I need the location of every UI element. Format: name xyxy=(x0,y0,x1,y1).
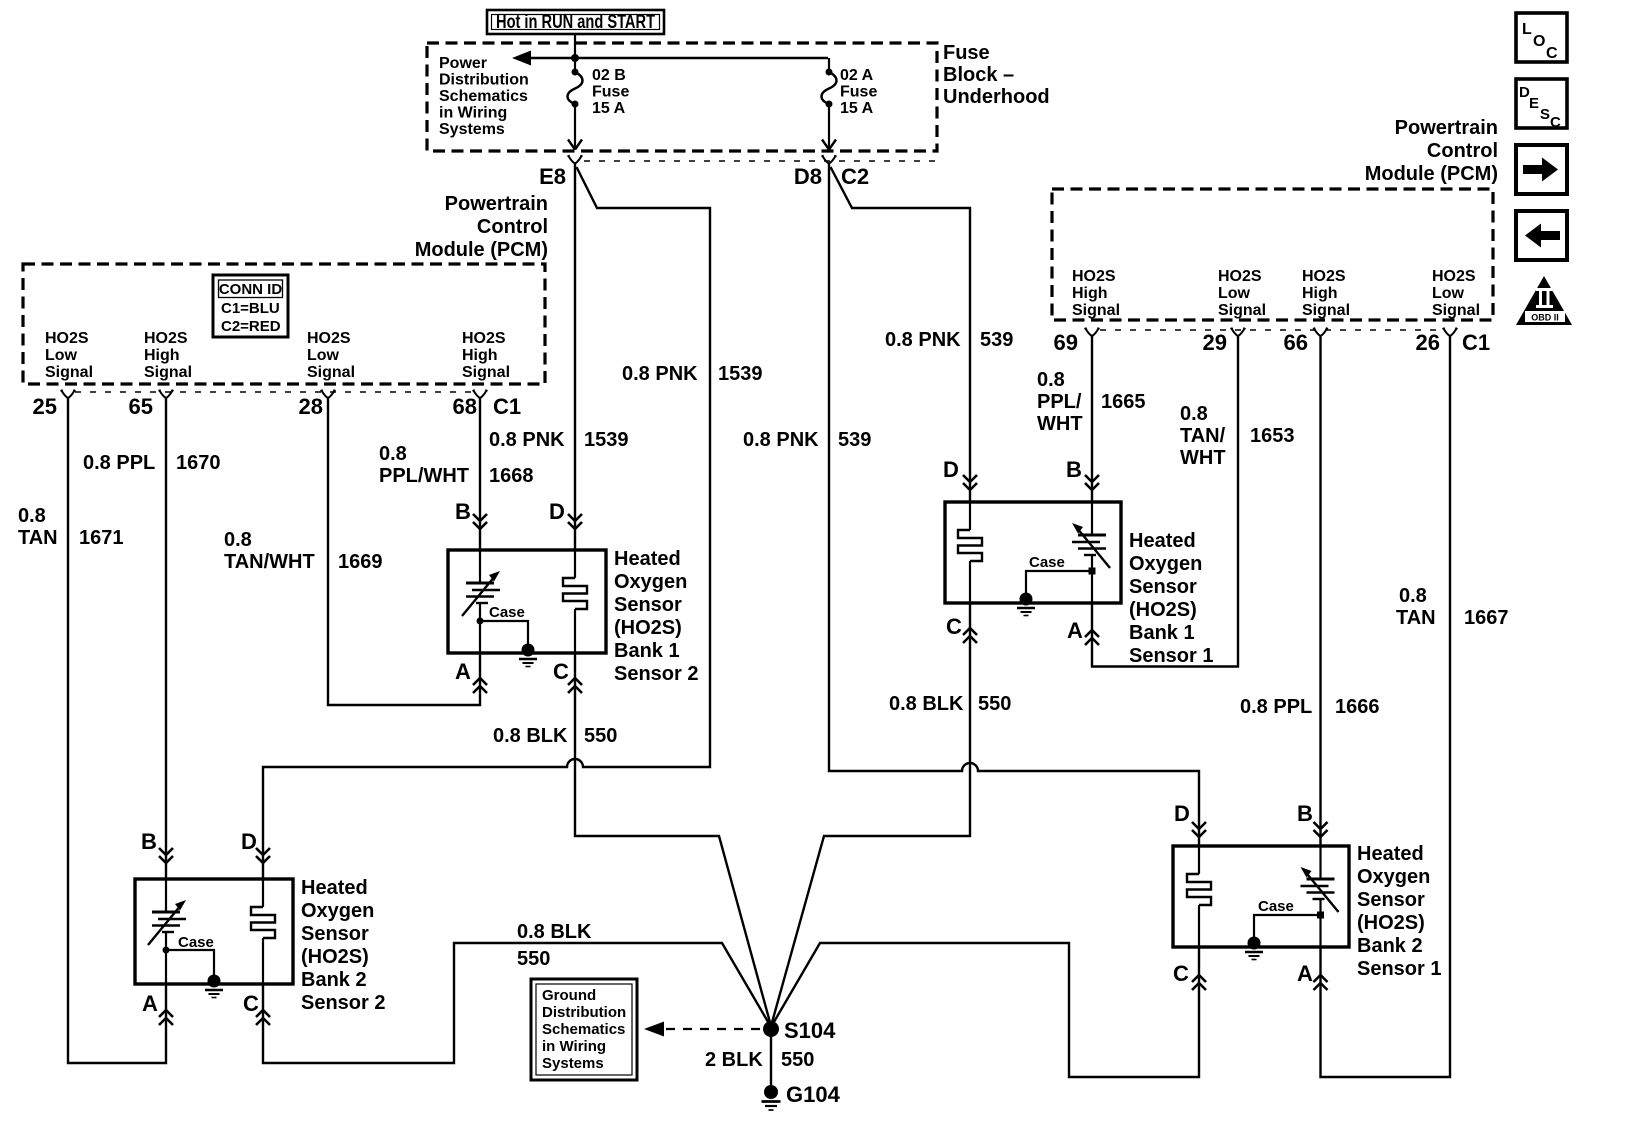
svg-text:TAN: TAN xyxy=(1396,607,1436,629)
svg-text:539: 539 xyxy=(838,429,871,451)
svg-text:Low: Low xyxy=(1218,285,1251,302)
heated oxygen sensor B1S2 box xyxy=(448,550,606,653)
svg-text:15 A: 15 A xyxy=(592,100,626,117)
terminal B chevron B1S2 xyxy=(473,514,487,529)
svg-text:A: A xyxy=(1067,618,1083,643)
LOC icon button xyxy=(1516,13,1567,62)
svg-text:Systems: Systems xyxy=(439,121,505,138)
svg-text:Bank 2: Bank 2 xyxy=(1357,935,1423,957)
svg-text:Heated: Heated xyxy=(1129,530,1196,552)
svg-text:G104: G104 xyxy=(786,1082,841,1107)
B2S2 sensing element (variable source) xyxy=(148,879,186,984)
svg-text:L: L xyxy=(1522,21,1532,38)
svg-text:WHT: WHT xyxy=(1180,447,1226,469)
svg-text:D: D xyxy=(241,829,257,854)
svg-text:C: C xyxy=(946,614,962,639)
svg-text:Distribution: Distribution xyxy=(542,1004,626,1021)
svg-text:Case: Case xyxy=(178,934,214,951)
B1S2 sensing element (variable source) xyxy=(462,550,500,653)
wire 0.8 PNK 1539 connector E8 to B1S2 terminal D xyxy=(574,164,576,551)
left PCM HO2S high signal label pin 68 xyxy=(462,330,510,381)
svg-text:Case: Case xyxy=(1029,554,1065,571)
svg-text:Signal: Signal xyxy=(1072,302,1120,319)
svg-text:D: D xyxy=(943,457,959,482)
B1S2 terminal letters xyxy=(455,499,569,684)
svg-text:0.8 BLK: 0.8 BLK xyxy=(517,921,592,943)
svg-text:65: 65 xyxy=(129,394,153,419)
svg-text:A: A xyxy=(142,991,158,1016)
svg-text:C1: C1 xyxy=(1462,330,1490,355)
splice S104 xyxy=(763,1021,779,1037)
bus wire with left arrow to power distribution xyxy=(512,51,828,66)
B1S2 case connection and ground xyxy=(477,604,538,667)
svg-text:Fuse: Fuse xyxy=(840,84,877,101)
terminal C chevron B1S2 xyxy=(568,678,582,693)
fuse block label xyxy=(943,42,1050,108)
svg-text:1665: 1665 xyxy=(1101,391,1146,413)
back arrow icon button xyxy=(1516,211,1567,260)
svg-text:C1: C1 xyxy=(493,394,521,419)
svg-text:(HO2S): (HO2S) xyxy=(1357,912,1425,934)
right PCM connector row dashed line xyxy=(1100,329,1442,331)
svg-text:TAN: TAN xyxy=(18,527,58,549)
terminal B chevron B2S1 xyxy=(1314,822,1328,837)
svg-text:(HO2S): (HO2S) xyxy=(1129,599,1197,621)
svg-text:Sensor: Sensor xyxy=(1357,889,1425,911)
svg-text:0.8 BLK: 0.8 BLK xyxy=(493,725,568,747)
svg-text:D: D xyxy=(1174,801,1190,826)
wire label 2 BLK 550 xyxy=(705,1049,814,1071)
B1S2 name label xyxy=(614,548,698,685)
pin 65 connector symbol xyxy=(159,390,174,398)
terminal A chevron B1S1 xyxy=(1085,630,1099,645)
svg-text:HO2S: HO2S xyxy=(462,330,506,347)
wire 0.8 PNK 539 connector D8 to B2S1 terminal D with hop xyxy=(829,164,1199,847)
wire label 0.8 PPL/WHT 1665 xyxy=(1037,369,1146,435)
left PCM label xyxy=(415,193,548,261)
svg-text:(HO2S): (HO2S) xyxy=(301,946,369,968)
svg-text:CONN ID: CONN ID xyxy=(219,281,283,298)
svg-text:1669: 1669 xyxy=(338,551,383,573)
svg-text:26: 26 xyxy=(1416,330,1440,355)
svg-text:C2=RED: C2=RED xyxy=(221,318,281,335)
svg-text:2 BLK: 2 BLK xyxy=(705,1049,763,1071)
right PCM label xyxy=(1365,117,1498,185)
wire 2 BLK 550 splice S104 to ground G104 xyxy=(770,1029,772,1090)
svg-text:68: 68 xyxy=(453,394,477,419)
svg-text:0.8 PPL: 0.8 PPL xyxy=(83,452,155,474)
wire label 0.8 TAN 1667 xyxy=(1396,585,1509,629)
svg-text:0.8: 0.8 xyxy=(1399,585,1427,607)
terminal C chevron B1S1 xyxy=(963,628,977,643)
connector row dashed line under fuse block xyxy=(584,160,936,162)
svg-text:E8: E8 xyxy=(539,164,566,189)
svg-text:TAN/WHT: TAN/WHT xyxy=(224,551,315,573)
fuse 02 A value label xyxy=(840,67,877,117)
fuse 02 B 15 A xyxy=(568,58,583,150)
wire label 0.8 PNK 539 on branch drop xyxy=(885,329,1013,351)
B2S2 case connection and ground xyxy=(163,934,224,998)
right PCM HO2S high signal label pin 66 xyxy=(1302,268,1350,319)
svg-text:Powertrain: Powertrain xyxy=(1395,117,1498,139)
svg-text:Oxygen: Oxygen xyxy=(1129,553,1202,575)
svg-text:1671: 1671 xyxy=(79,527,124,549)
wire 0.8 PNK 539 D8 branch to B1S1 terminal D xyxy=(831,167,971,502)
svg-text:Signal: Signal xyxy=(307,364,355,381)
wire 0.8 BLK 550 B1S2 terminal C to splice S104 xyxy=(575,653,771,1026)
svg-text:B: B xyxy=(1297,801,1313,826)
svg-text:1667: 1667 xyxy=(1464,607,1509,629)
svg-text:02 A: 02 A xyxy=(840,67,874,84)
svg-text:B: B xyxy=(455,499,471,524)
right PCM HO2S low signal label pin 29 xyxy=(1218,268,1266,319)
svg-text:Sensor: Sensor xyxy=(614,594,682,616)
svg-text:Distribution: Distribution xyxy=(439,72,529,89)
wire label 0.8 TAN/WHT 1653 xyxy=(1180,403,1295,469)
wire label 0.8 PPL 1670 xyxy=(83,452,221,474)
heated oxygen sensor B2S1 box xyxy=(1173,846,1349,947)
terminal B chevron B1S1 xyxy=(1085,475,1099,490)
B1S1 case connection and ground xyxy=(1017,554,1096,616)
svg-text:Power: Power xyxy=(439,55,487,72)
SECTION-PCMS xyxy=(68,164,1450,1091)
B2S1 name label xyxy=(1357,843,1441,980)
svg-text:Bank 1: Bank 1 xyxy=(1129,622,1195,644)
svg-text:A: A xyxy=(1297,961,1313,986)
left PCM U1 dashed box xyxy=(23,264,545,384)
svg-text:550: 550 xyxy=(978,693,1011,715)
svg-text:1668: 1668 xyxy=(489,465,534,487)
ground G104 xyxy=(762,1085,781,1110)
svg-text:Low: Low xyxy=(1432,285,1465,302)
svg-text:Signal: Signal xyxy=(1302,302,1350,319)
svg-text:1666: 1666 xyxy=(1335,696,1380,718)
wire 0.8 BLK 550 B2S2 terminal C to splice S104 xyxy=(263,943,771,1063)
svg-text:1539: 1539 xyxy=(584,429,629,451)
svg-text:Underhood: Underhood xyxy=(943,86,1050,108)
svg-text:15 A: 15 A xyxy=(840,100,874,117)
svg-text:Signal: Signal xyxy=(45,364,93,381)
svg-text:Sensor 2: Sensor 2 xyxy=(301,992,385,1014)
svg-text:Fuse: Fuse xyxy=(943,42,990,64)
svg-text:25: 25 xyxy=(33,394,57,419)
svg-text:C: C xyxy=(243,991,259,1016)
svg-text:C1=BLU: C1=BLU xyxy=(221,300,280,317)
right PCM U2 dashed box xyxy=(1052,189,1493,320)
svg-text:PPL/WHT: PPL/WHT xyxy=(379,465,469,487)
B2S2 heater element xyxy=(251,879,275,984)
svg-text:Block –: Block – xyxy=(943,64,1014,86)
svg-text:Schematics: Schematics xyxy=(542,1021,625,1038)
svg-text:Sensor 2: Sensor 2 xyxy=(614,663,698,685)
svg-text:HO2S: HO2S xyxy=(144,330,188,347)
fuse block underhood dashed box xyxy=(427,43,937,151)
heated oxygen sensor B2S2 box xyxy=(135,879,293,984)
svg-text:02 B: 02 B xyxy=(592,67,626,84)
svg-text:High: High xyxy=(144,347,180,364)
wire label 0.8 TAN 1671 xyxy=(18,505,124,549)
pin 68 connector symbol xyxy=(473,390,488,398)
CONN ID legend box xyxy=(213,275,288,337)
wire label 0.8 PPL 1666 xyxy=(1240,696,1380,718)
wire 0.8 PPL/WHT 1668 pin 68 to B1S2 terminal B xyxy=(479,398,481,550)
B1S2 heater element xyxy=(563,550,587,653)
wire label 0.8 BLK 550 on B1S1 ground drop xyxy=(889,693,1011,715)
svg-text:Schematics: Schematics xyxy=(439,88,528,105)
OBD II icon xyxy=(1516,276,1572,325)
B2S1 terminal letters xyxy=(1173,801,1313,986)
svg-text:Powertrain: Powertrain xyxy=(445,193,548,215)
B2S1 heater element xyxy=(1187,846,1211,947)
wire 0.8 BLK 550 B1S1 terminal C to splice S104 xyxy=(771,603,970,1026)
wire label 0.8 PNK 1539 on branch drop xyxy=(622,363,763,385)
pin 69 connector symbol xyxy=(1085,328,1100,336)
svg-text:539: 539 xyxy=(980,329,1013,351)
svg-text:29: 29 xyxy=(1203,330,1227,355)
hot in RUN and START banner box xyxy=(487,10,664,34)
svg-text:Module (PCM): Module (PCM) xyxy=(1365,163,1498,185)
terminal A chevron B1S2 xyxy=(473,678,487,693)
terminal D chevron B1S1 xyxy=(963,475,977,490)
svg-text:0.8 PNK: 0.8 PNK xyxy=(489,429,565,451)
svg-text:Control: Control xyxy=(1427,140,1498,162)
left PCM connector row dashed line xyxy=(75,391,474,393)
svg-text:Sensor: Sensor xyxy=(301,923,369,945)
svg-text:1653: 1653 xyxy=(1250,425,1295,447)
svg-text:HO2S: HO2S xyxy=(1072,268,1116,285)
svg-text:0.8: 0.8 xyxy=(224,529,252,551)
wire label 0.8 BLK 550 on B1S2 ground drop xyxy=(493,725,617,747)
svg-text:WHT: WHT xyxy=(1037,413,1083,435)
svg-text:Case: Case xyxy=(489,604,525,621)
svg-text:High: High xyxy=(1302,285,1338,302)
svg-text:D: D xyxy=(549,499,565,524)
ground distribution schematics reference box xyxy=(531,979,637,1080)
B2S2 name label xyxy=(301,877,385,1014)
svg-text:C: C xyxy=(1546,45,1558,62)
pin 25 connector symbol xyxy=(61,390,76,398)
svg-text:550: 550 xyxy=(781,1049,814,1071)
terminal C chevron B2S2 xyxy=(256,1010,270,1025)
wire from hot banner down to bus xyxy=(574,34,576,58)
svg-text:O: O xyxy=(1533,33,1545,50)
svg-text:HO2S: HO2S xyxy=(307,330,351,347)
svg-text:0.8 PNK: 0.8 PNK xyxy=(622,363,698,385)
wire 0.8 PPL/WHT 1665 pin 69 to B1S1 terminal B xyxy=(1091,336,1093,502)
B1S1 terminal letters xyxy=(943,457,1083,643)
svg-text:HO2S: HO2S xyxy=(1218,268,1262,285)
fuse 02 A 15 A xyxy=(822,58,837,150)
svg-text:Low: Low xyxy=(307,347,340,364)
wire 0.8 TAN 1667 pin 26 to B2S1 terminal A xyxy=(1321,336,1451,1077)
wire 0.8 TAN 1671 pin 25 to B2S2 terminal A xyxy=(68,398,166,1063)
svg-text:Sensor: Sensor xyxy=(1129,576,1197,598)
svg-text:Ground: Ground xyxy=(542,987,596,1004)
pin 26 connector symbol xyxy=(1443,328,1458,336)
svg-text:S104: S104 xyxy=(784,1018,836,1043)
wire 0.8 TAN/WHT 1653 pin 29 to B1S1 terminal A xyxy=(1092,336,1238,667)
svg-text:OBD II: OBD II xyxy=(1531,313,1559,323)
svg-text:28: 28 xyxy=(299,394,323,419)
svg-text:0.8: 0.8 xyxy=(1180,403,1208,425)
svg-text:Control: Control xyxy=(477,216,548,238)
svg-text:C: C xyxy=(1173,961,1189,986)
svg-text:Systems: Systems xyxy=(542,1055,604,1072)
svg-text:0.8 PNK: 0.8 PNK xyxy=(743,429,819,451)
svg-text:0.8: 0.8 xyxy=(379,443,407,465)
heated oxygen sensor B1S1 box xyxy=(945,502,1121,603)
svg-text:Signal: Signal xyxy=(144,364,192,381)
terminal D chevron B2S1 xyxy=(1192,822,1206,837)
svg-text:C2: C2 xyxy=(841,164,869,189)
svg-text:Fuse: Fuse xyxy=(592,84,629,101)
B1S1 heater element xyxy=(958,502,982,603)
svg-text:0.8: 0.8 xyxy=(18,505,46,527)
terminal A chevron B2S2 xyxy=(159,1010,173,1025)
svg-text:550: 550 xyxy=(584,725,617,747)
wire 0.8 PNK 1539 E8 branch to B2S2 terminal D with hop xyxy=(263,167,710,879)
pin 66 connector symbol xyxy=(1313,328,1328,336)
svg-text:Low: Low xyxy=(45,347,78,364)
wire 0.8 PPL 1670 pin 65 to B2S2 terminal B xyxy=(165,398,167,879)
svg-text:Heated: Heated xyxy=(1357,843,1424,865)
svg-text:Sensor 1: Sensor 1 xyxy=(1357,958,1441,980)
svg-text:Signal: Signal xyxy=(462,364,510,381)
svg-text:S: S xyxy=(1540,106,1550,123)
svg-text:in Wiring: in Wiring xyxy=(439,105,507,122)
svg-text:Bank 1: Bank 1 xyxy=(614,640,680,662)
pin 29 connector symbol xyxy=(1231,328,1246,336)
wire label 0.8 PNK 1539 on E8 drop xyxy=(489,429,629,451)
wire label 0.8 PPL/WHT 1668 xyxy=(379,443,534,487)
svg-text:HO2S: HO2S xyxy=(1432,268,1476,285)
svg-text:HO2S: HO2S xyxy=(1302,268,1346,285)
svg-text:0.8 PNK: 0.8 PNK xyxy=(885,329,961,351)
svg-text:C: C xyxy=(1550,114,1561,131)
terminal A chevron B2S1 xyxy=(1314,975,1328,990)
svg-text:0.8: 0.8 xyxy=(1037,369,1065,391)
wire label 0.8 PNK 539 on D8 drop xyxy=(743,429,871,451)
svg-text:HO2S: HO2S xyxy=(45,330,89,347)
svg-text:Signal: Signal xyxy=(1218,302,1266,319)
svg-text:C: C xyxy=(553,659,569,684)
svg-text:B: B xyxy=(1066,457,1082,482)
svg-text:0.8 BLK: 0.8 BLK xyxy=(889,693,964,715)
svg-text:PPL/: PPL/ xyxy=(1037,391,1082,413)
svg-text:Case: Case xyxy=(1258,898,1294,915)
svg-text:Module (PCM): Module (PCM) xyxy=(415,239,548,261)
B2S1 sensing element (variable source) xyxy=(1301,846,1339,947)
svg-text:TAN/: TAN/ xyxy=(1180,425,1226,447)
junction node at bus and hot feed xyxy=(571,54,579,62)
svg-text:Signal: Signal xyxy=(1432,302,1480,319)
svg-text:Oxygen: Oxygen xyxy=(301,900,374,922)
svg-text:A: A xyxy=(455,659,471,684)
svg-text:Sensor 1: Sensor 1 xyxy=(1129,645,1213,667)
svg-text:Bank 2: Bank 2 xyxy=(301,969,367,991)
wire 0.8 PPL 1666 pin 66 to B2S1 terminal B xyxy=(1319,336,1321,846)
left PCM HO2S low signal label pin 28 xyxy=(307,330,355,381)
terminal D chevron B2S2 xyxy=(256,848,270,863)
DESC icon button xyxy=(1516,79,1567,131)
B1S1 sensing element (variable source) xyxy=(1072,502,1110,603)
power distribution schematics note xyxy=(439,55,529,138)
B2S2 terminal letters xyxy=(141,829,259,1016)
svg-text:(HO2S): (HO2S) xyxy=(614,617,682,639)
terminal D chevron B1S2 xyxy=(568,514,582,529)
svg-text:Heated: Heated xyxy=(614,548,681,570)
svg-text:Heated: Heated xyxy=(301,877,368,899)
svg-text:E: E xyxy=(1529,95,1539,112)
svg-text:Oxygen: Oxygen xyxy=(1357,866,1430,888)
right PCM HO2S low signal label pin 26 xyxy=(1432,268,1480,319)
svg-text:1539: 1539 xyxy=(718,363,763,385)
svg-text:1670: 1670 xyxy=(176,452,221,474)
left PCM HO2S high signal label pin 65 xyxy=(144,330,192,381)
pin 28 connector symbol xyxy=(321,390,336,398)
connector D8 symbol xyxy=(822,156,837,164)
svg-text:High: High xyxy=(1072,285,1108,302)
fuse 02 B value label xyxy=(592,67,629,117)
right PCM HO2S high signal label pin 69 xyxy=(1072,268,1120,319)
wire label 0.8 TAN/WHT 1669 xyxy=(224,529,383,573)
svg-text:High: High xyxy=(462,347,498,364)
B2S1 case connection and ground xyxy=(1245,898,1324,960)
wire 0.8 BLK 550 B2S1 terminal C to splice S104 xyxy=(771,943,1199,1077)
svg-text:550: 550 xyxy=(517,948,550,970)
reference arrow and dashed leader to S104 xyxy=(644,1022,762,1037)
svg-text:B: B xyxy=(141,829,157,854)
connector E8 symbol xyxy=(568,156,583,164)
B1S1 name label xyxy=(1129,530,1213,667)
wire 0.8 TAN/WHT 1669 pin 28 to B1S2 terminal A xyxy=(328,398,480,705)
svg-text:in Wiring: in Wiring xyxy=(542,1038,606,1055)
left PCM HO2S low signal label pin 25 xyxy=(45,330,93,381)
forward arrow icon button xyxy=(1516,145,1567,194)
svg-text:Hot in RUN and START: Hot in RUN and START xyxy=(496,12,655,33)
svg-text:Oxygen: Oxygen xyxy=(614,571,687,593)
svg-text:69: 69 xyxy=(1054,330,1078,355)
terminal B chevron B2S2 xyxy=(159,848,173,863)
svg-text:66: 66 xyxy=(1284,330,1308,355)
wire label 0.8 BLK 550 on B2S2 ground run xyxy=(517,921,592,970)
svg-text:D8: D8 xyxy=(794,164,822,189)
terminal C chevron B2S1 xyxy=(1192,975,1206,990)
svg-text:0.8 PPL: 0.8 PPL xyxy=(1240,696,1312,718)
